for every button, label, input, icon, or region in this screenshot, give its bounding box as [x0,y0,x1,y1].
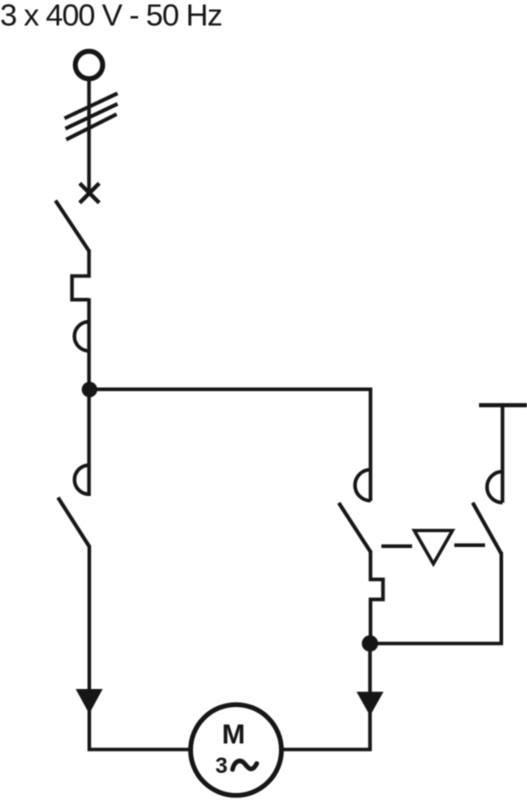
svg-text:M: M [222,719,245,750]
svg-text:3: 3 [215,753,227,778]
svg-text:3 x 400 V - 50 Hz: 3 x 400 V - 50 Hz [0,0,222,33]
